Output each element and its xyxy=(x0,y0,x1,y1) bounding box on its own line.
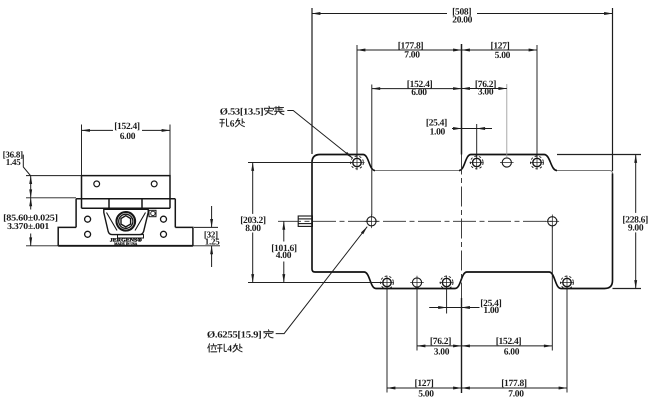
dim [127] 5.00 bottom xyxy=(387,387,462,389)
clamp inner slants xyxy=(107,213,146,231)
top plate holes xyxy=(94,181,157,187)
svg-text:6.00: 6.00 xyxy=(120,132,136,142)
leader 1.45 xyxy=(23,155,31,176)
svg-text:8.00: 8.00 xyxy=(245,224,261,234)
dim [85.60] 3.370 xyxy=(30,198,32,246)
svg-text:[152.4]: [152.4] xyxy=(114,122,140,132)
mounting hole bottom-right (+7.00) xyxy=(560,276,574,290)
hanzi wei xyxy=(208,344,217,352)
mounting hole bottom (-1.00) xyxy=(440,276,454,290)
plate outline: right edge, bottom edge with tabs, left edge xyxy=(312,163,613,289)
svg-text:Ø.6255[15.9]: Ø.6255[15.9] xyxy=(207,331,262,341)
svg-text:9.00: 9.00 xyxy=(628,224,644,234)
flange xyxy=(58,227,193,245)
plate outline: top-left tab xyxy=(312,155,375,171)
svg-text:5.00: 5.00 xyxy=(418,390,434,400)
hex socket xyxy=(121,216,131,227)
extension lines 6.00 verticals xyxy=(81,125,83,176)
dim [152.4] 6.00 front xyxy=(82,129,171,131)
extension line 9.00 bottom xyxy=(613,288,642,290)
base sides xyxy=(76,199,175,228)
bar under clamp xyxy=(118,235,144,238)
svg-text:[177.8]: [177.8] xyxy=(501,379,527,389)
hanzi kong xyxy=(220,119,229,127)
extension line hole +1.00 up xyxy=(476,124,478,158)
clamp screw head inner xyxy=(119,214,133,228)
label mounting holes leader xyxy=(287,111,352,159)
svg-text:3.370±.001: 3.370±.001 xyxy=(7,221,50,231)
svg-text:[127]: [127] xyxy=(414,379,433,389)
dim [203.2] 8.00 left xyxy=(252,163,254,283)
svg-text:3.00: 3.00 xyxy=(434,348,450,358)
dim [177.8] 7.00 top xyxy=(357,49,462,51)
locating hole top (+3.00) xyxy=(500,158,514,167)
svg-text:1.25: 1.25 xyxy=(205,236,221,246)
dim [152.4] 6.00 bottom xyxy=(462,345,553,347)
extension line right 20.00 xyxy=(612,8,614,171)
svg-text:[76.2]: [76.2] xyxy=(430,337,451,347)
hanzi an xyxy=(264,106,273,114)
dim [76.2] 3.00 bottom xyxy=(417,345,462,347)
dim [127] 5.00 top xyxy=(462,49,538,51)
hanzi chu xyxy=(235,119,244,127)
svg-text:4.00: 4.00 xyxy=(276,251,292,261)
svg-text:6.00: 6.00 xyxy=(504,348,520,358)
plate outline: top-middle raised tab xyxy=(459,155,557,171)
locating hole center-right (+6.00) xyxy=(546,215,560,229)
extension line hole +5.00 up xyxy=(536,45,538,158)
dim [177.8] 7.00 bottom xyxy=(462,387,568,389)
dim [25.4] 1.00 bottom xyxy=(429,307,479,309)
svg-text:7.00: 7.00 xyxy=(508,390,524,400)
extension line hole +3.00 up xyxy=(506,84,508,157)
svg-text:6.00: 6.00 xyxy=(411,88,427,98)
svg-text:7.00: 7.00 xyxy=(404,50,420,60)
plate outline: top-right recess edge xyxy=(557,171,613,174)
extension line hole +7.00 down xyxy=(566,288,568,393)
bottom edge xyxy=(58,245,193,247)
extension line bottom edge left xyxy=(26,245,58,247)
extension line hole -3.00 down xyxy=(416,288,418,351)
svg-text:20.00: 20.00 xyxy=(452,16,472,26)
svg-text:MADE IN USA: MADE IN USA xyxy=(114,242,137,246)
hanzi kong2 xyxy=(218,344,227,352)
dim [152.4] 6.00 top xyxy=(372,88,462,90)
dim [25.4] 1.00 top xyxy=(452,128,492,130)
hanzi zhuang xyxy=(275,106,284,114)
base top seam xyxy=(76,198,175,200)
set screw square xyxy=(149,210,156,216)
extension line part top left xyxy=(26,175,82,177)
extension line hole -1.00 down xyxy=(446,288,448,314)
extension line 1.45 bottom / 3.370 top xyxy=(26,197,76,199)
vertical centerline of plate xyxy=(461,44,463,155)
notch bottom line xyxy=(82,207,171,209)
label locating holes leader xyxy=(276,227,368,334)
notch inner edges xyxy=(109,199,142,209)
extension line left 20.00 xyxy=(311,8,313,154)
side view body: top plate xyxy=(58,176,193,246)
extension line flange top right xyxy=(194,226,218,228)
mounting hole top (+1.00) xyxy=(470,156,484,170)
svg-text:Ø.53[13.5]: Ø.53[13.5] xyxy=(220,107,264,117)
extension line hole -6.00 up xyxy=(371,85,373,216)
extension line bottom edge right xyxy=(193,245,220,247)
svg-text:[152.4]: [152.4] xyxy=(496,337,522,347)
mounting hole top (+5.00) xyxy=(530,156,544,170)
svg-text:1.00: 1.00 xyxy=(430,128,446,138)
hanzi ding xyxy=(264,330,273,338)
dim [32] 1.25 xyxy=(211,206,213,267)
hanzi chu2 xyxy=(233,344,242,352)
svg-text:6: 6 xyxy=(230,120,235,130)
mounting hole top-left (-7.00) xyxy=(349,155,364,170)
extension line 9.00 top xyxy=(557,154,641,156)
svg-text:3.00: 3.00 xyxy=(478,88,494,98)
svg-text:1.45: 1.45 xyxy=(6,157,21,167)
extension line hole -7.00 up xyxy=(356,45,358,158)
mounting hole bottom (-5.00) xyxy=(380,276,394,290)
dim [76.2] 3.00 top xyxy=(462,88,507,90)
dim [228.6] 9.00 right xyxy=(635,155,637,289)
plate outline: top recess between tabs xyxy=(375,170,459,172)
locating hole bottom (-3.00) xyxy=(410,276,424,290)
dim [36.8] 1.45 xyxy=(30,176,32,198)
extension line bottom hole row left xyxy=(248,282,384,284)
svg-text:4: 4 xyxy=(227,345,232,355)
dim [101.6] 4.00 left inner xyxy=(283,221,285,282)
extension line hole +6.00 down xyxy=(551,227,553,351)
left-edge handle protrusion xyxy=(298,216,312,226)
clamp body xyxy=(104,209,148,234)
base holes xyxy=(85,216,167,237)
extension line hole -5.00 down xyxy=(386,288,388,393)
set screw circle xyxy=(151,211,155,215)
clamp screw head outer xyxy=(117,212,136,231)
locating hole center-left (-6.00) xyxy=(365,215,379,229)
extension line top hole row left xyxy=(248,162,352,164)
svg-text:1.00: 1.00 xyxy=(483,306,499,316)
horizontal centerline through plate xyxy=(278,220,552,222)
dim [508] 20.00 xyxy=(312,13,613,15)
svg-text:5.00: 5.00 xyxy=(495,51,511,61)
